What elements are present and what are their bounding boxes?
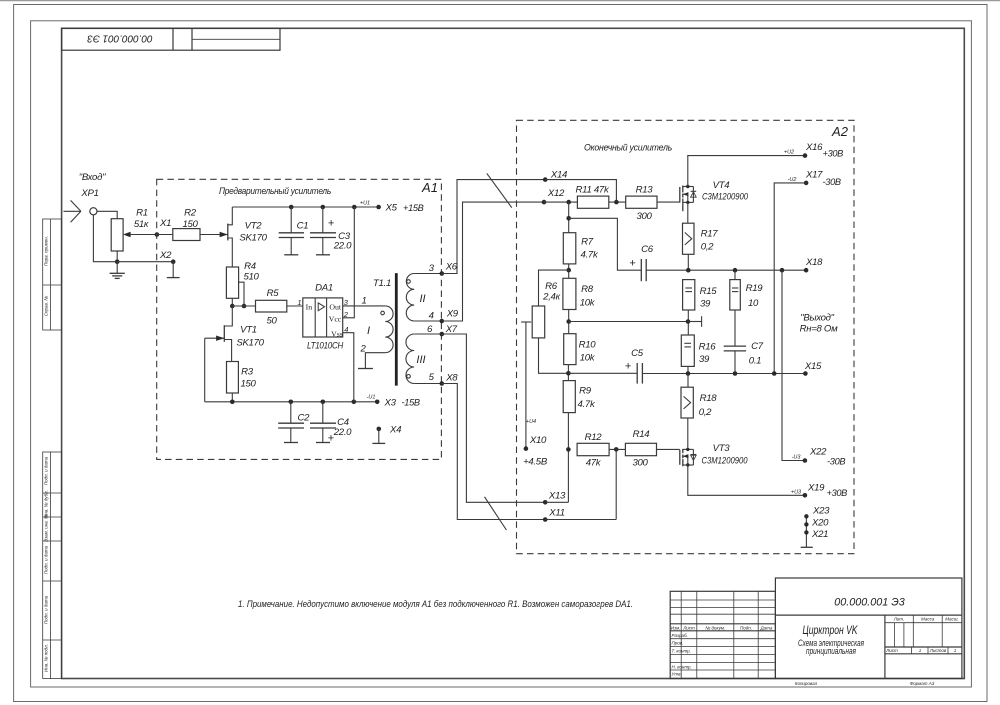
svg-text:R7: R7: [581, 237, 594, 248]
svg-text:Разраб.: Разраб.: [672, 633, 688, 638]
resistor R8: [563, 278, 596, 309]
terminal X11: [543, 517, 548, 522]
terminal X3: [375, 400, 380, 405]
terminal X14: [543, 177, 548, 182]
svg-text:R10: R10: [579, 340, 597, 351]
wire R13 to VT4 gate: [657, 201, 680, 203]
svg-text:R2: R2: [184, 208, 197, 219]
svg-text:-15В: -15В: [402, 398, 420, 408]
svg-text:Лист: Лист: [682, 625, 695, 630]
svg-text:VT1: VT1: [240, 325, 257, 336]
svg-text:Инв. № подл.: Инв. № подл.: [44, 644, 49, 672]
svg-text:R16: R16: [699, 342, 717, 353]
svg-text:+U3: +U3: [791, 490, 802, 496]
winding II: [406, 274, 442, 322]
svg-text:III: III: [416, 354, 425, 366]
svg-text:0,2: 0,2: [701, 242, 714, 253]
junction C6 tap: [566, 216, 571, 221]
svg-text:2,4к: 2,4к: [542, 292, 560, 303]
wire R2 to VT2 gate with arrow: [200, 232, 228, 237]
module A1 dashed box: [157, 179, 442, 459]
wire node to C5: [568, 372, 637, 374]
wire X11 row: [545, 519, 616, 521]
svg-text:1. Примечание. Недопустимо вкл: 1. Примечание. Недопустимо включение мод…: [238, 599, 633, 610]
svg-text:4.7k: 4.7k: [581, 250, 599, 261]
capacitor C7: [724, 341, 764, 374]
svg-text:X2: X2: [159, 250, 172, 261]
transistor VT3: [680, 443, 748, 467]
svg-text:X10: X10: [529, 435, 547, 446]
svg-text:X16: X16: [805, 142, 823, 153]
svg-text:X20: X20: [811, 518, 829, 529]
svg-text:22.0: 22.0: [333, 427, 352, 438]
terminal X4 with chassis: [372, 425, 401, 444]
resistor R5: [256, 288, 287, 327]
wire VT3 source to X19: [688, 465, 805, 495]
resistor R2: [173, 208, 200, 241]
bias rail end tick: [688, 316, 702, 327]
svg-text:R15: R15: [700, 286, 718, 297]
chassis stub under X2: [167, 262, 180, 278]
junction R4 bottom: [230, 304, 235, 309]
wire winding I bottom to common: [365, 353, 385, 369]
svg-text:R13: R13: [636, 185, 654, 196]
svg-text:XP1: XP1: [80, 188, 98, 199]
wire R15 bottom: [687, 310, 689, 335]
title block left signature table: [670, 591, 775, 678]
svg-text:II: II: [419, 293, 425, 305]
svg-text:-U1: -U1: [367, 395, 376, 401]
wire node down to VT1 drain: [224, 306, 232, 326]
svg-text:R17: R17: [701, 229, 719, 240]
svg-text:4: 4: [429, 311, 434, 322]
resistor R7: [563, 233, 599, 264]
svg-text:51к: 51к: [134, 219, 149, 230]
svg-text:X19: X19: [807, 483, 825, 494]
svg-text:Vss: Vss: [331, 330, 343, 339]
svg-text:Vcc: Vcc: [329, 315, 342, 324]
svg-text:C2: C2: [297, 413, 310, 424]
junction DA1 Vcc: [352, 205, 357, 210]
capacitor C4 (electrolytic): [310, 402, 352, 445]
svg-text:22.0: 22.0: [333, 241, 352, 252]
svg-text:-30В: -30В: [823, 177, 841, 187]
svg-text:А2: А2: [831, 124, 849, 139]
junction R8/bias rail: [566, 319, 571, 324]
svg-text:R3: R3: [241, 367, 254, 378]
wire R19 bottom to C7: [734, 310, 736, 346]
terminal X7: [440, 332, 445, 337]
svg-text:R14: R14: [633, 429, 650, 440]
wire R7 bottom: [568, 264, 570, 278]
transistor VT4: [680, 180, 748, 211]
svg-text:R11 47k: R11 47k: [576, 185, 610, 196]
svg-text:С3М1200900: С3М1200900: [702, 456, 748, 466]
lower output rail X15: [642, 373, 805, 375]
resistor R1 (potentiometer): [111, 208, 149, 252]
svg-text:X5: X5: [385, 203, 398, 214]
svg-text:Подп. и дата: Подп. и дата: [44, 595, 49, 624]
svg-text:Справ. №: Справ. №: [44, 296, 49, 317]
wire XP1 to R1 top: [98, 211, 118, 218]
terminal X9: [440, 319, 445, 324]
junction X12/R7: [566, 200, 571, 205]
capacitor C1: [279, 207, 309, 255]
svg-text:00.000.001 Э3: 00.000.001 Э3: [834, 597, 905, 609]
transistor VT1: [205, 325, 265, 362]
terminal X15: [803, 371, 808, 376]
svg-text:Утв.: Утв.: [672, 672, 682, 677]
wire XP1 sleeve down to X2 row: [93, 215, 117, 261]
junction bias rail right: [686, 319, 691, 324]
wire R6 bottom to R10 node: [539, 338, 569, 373]
svg-text:-U3: -U3: [792, 455, 802, 461]
svg-text:+U1: +U1: [360, 201, 370, 207]
terminal X6: [440, 271, 445, 276]
group slash upper: [487, 173, 512, 207]
svg-text:Лист: Лист: [885, 648, 898, 653]
resistor R4 with tap: [226, 261, 259, 298]
svg-text:C6: C6: [641, 244, 654, 255]
svg-text:Дата: Дата: [759, 625, 772, 630]
resistor R17 (0.2 / 5W mark): [683, 223, 719, 254]
junction C6/R17/R15: [686, 268, 691, 273]
terminal X13: [543, 500, 548, 505]
svg-text:X9: X9: [446, 309, 459, 320]
svg-text:X4: X4: [389, 425, 401, 436]
svg-text:X3: X3: [384, 398, 397, 409]
svg-text:150: 150: [240, 379, 256, 390]
terminal X5: [376, 205, 381, 210]
svg-text:"Вход": "Вход": [79, 172, 106, 183]
wire X7 to X13: [442, 334, 545, 502]
winding I: [385, 306, 393, 353]
winding III: [406, 334, 442, 384]
svg-text:+U2: +U2: [784, 150, 794, 156]
svg-text:принципиальная: принципиальная: [806, 646, 856, 656]
title block: [775, 578, 962, 679]
svg-text:DA1: DA1: [315, 283, 333, 294]
winding I polarity dot: [381, 311, 385, 315]
svg-text:Out: Out: [329, 303, 342, 312]
upper output rail: [646, 269, 806, 271]
resistor R14: [625, 429, 656, 469]
wire VT1 gate down to rail: [204, 338, 206, 402]
wiper arrow from X1 to R1: [123, 232, 157, 238]
svg-text:Rн=8 Ом: Rн=8 Ом: [800, 324, 838, 335]
X10 riser with tick: [521, 322, 531, 449]
svg-text:X11: X11: [548, 508, 564, 519]
svg-text:Н. контр.: Н. контр.: [672, 664, 692, 669]
svg-text:300: 300: [632, 458, 648, 469]
svg-text:1: 1: [361, 296, 366, 307]
resistor R11: [576, 185, 610, 209]
terminal X19: [803, 493, 808, 498]
page top edge shadow: [0, 0, 1000, 2]
wire X17 down to output rail: [774, 183, 806, 374]
junction R11/R13/X14: [614, 200, 619, 205]
svg-text:300: 300: [636, 211, 652, 222]
wire R16 bottom to output rail: [687, 366, 689, 373]
resistor R12: [577, 432, 609, 469]
+15V rail: [232, 206, 378, 208]
wire X9 to X12: [442, 202, 544, 321]
wire R9 bottom to R12 node: [567, 413, 569, 503]
svg-text:Масш.: Масш.: [945, 617, 959, 622]
svg-text:Масса: Масса: [921, 617, 935, 622]
svg-text:Подп. и дата: Подп. и дата: [44, 545, 49, 574]
svg-text:SK170: SK170: [236, 337, 264, 348]
terminal X10: [524, 446, 529, 451]
svg-text:C1: C1: [297, 221, 309, 232]
wire R10 bottom: [567, 365, 569, 381]
svg-text:0.1: 0.1: [749, 356, 761, 367]
wire R11 to R13: [609, 201, 626, 203]
svg-text:X8: X8: [445, 373, 458, 384]
svg-text:С3М1200900: С3М1200900: [702, 192, 748, 202]
svg-text:+: +: [328, 433, 335, 445]
svg-text:Подп. и дата: Подп. и дата: [44, 456, 49, 485]
junction X18 riser: [780, 268, 785, 273]
svg-text:R4: R4: [244, 261, 256, 272]
wire X13 row: [545, 501, 568, 503]
junction R1 bottom: [115, 259, 120, 264]
junction R12/R14/X11: [614, 447, 619, 452]
terminal X22: [803, 458, 808, 463]
svg-text:+: +: [625, 361, 632, 373]
transformer core: [395, 273, 398, 386]
resistor R13: [626, 185, 657, 223]
wire tap to C6: [569, 218, 642, 270]
svg-text:X1: X1: [159, 218, 171, 229]
junction C4 rail: [321, 400, 326, 405]
capacitor C3 (electrolytic): [310, 207, 352, 255]
svg-text:Перв. примен.: Перв. примен.: [44, 236, 49, 266]
terminal X12: [542, 200, 547, 205]
wire X2 row: [117, 261, 173, 263]
capacitor C2: [278, 402, 310, 443]
wire R14 to VT3 gate: [657, 448, 680, 450]
svg-text:Пров.: Пров.: [672, 641, 684, 646]
svg-text:+: +: [629, 258, 636, 270]
svg-text:Подп.: Подп.: [740, 625, 752, 630]
svg-text:Инв. № дубл.: Инв. № дубл.: [44, 490, 49, 518]
svg-text:X21: X21: [811, 529, 828, 540]
capacitor C6: [629, 244, 654, 281]
svg-text:0,2: 0,2: [699, 407, 712, 418]
module A2 dashed box: [517, 120, 855, 553]
wire R12 to R14: [609, 448, 625, 450]
svg-text:Листов: Листов: [929, 648, 947, 653]
junction C7 bottom: [733, 371, 738, 376]
top rotated doc-number box: [62, 28, 280, 50]
junction R9/R12/X13: [566, 447, 571, 452]
svg-text:+15В: +15В: [403, 203, 424, 213]
wire DA1 Vss to -rail: [343, 333, 354, 402]
junction R3 rail: [230, 400, 235, 405]
junction R19 top: [733, 268, 738, 273]
svg-text:VT4: VT4: [713, 180, 730, 191]
svg-text:Формат А3: Формат А3: [910, 681, 935, 686]
junction DA1 Vss rail: [352, 400, 357, 405]
resistor R16 (39 / 2W mark): [681, 335, 716, 366]
capacitor C5: [625, 348, 644, 384]
wire X6 to X14: [442, 180, 545, 274]
wire DA1 out to winding I: [343, 305, 386, 307]
wire VT4 drain to X16: [688, 156, 805, 187]
terminal X16: [803, 153, 808, 158]
svg-text:№ докум.: № докум.: [705, 625, 725, 630]
svg-text:4.7k: 4.7k: [578, 399, 596, 410]
svg-text:X7: X7: [445, 324, 458, 335]
svg-text:SK170: SK170: [239, 233, 267, 244]
terminal X18: [804, 268, 809, 273]
wire node to R6: [539, 270, 569, 306]
wire R8 bottom: [568, 310, 570, 334]
svg-text:А1: А1: [421, 180, 438, 195]
svg-text:-U2: -U2: [788, 177, 797, 183]
wire R18 to VT3: [687, 418, 689, 449]
svg-text:50: 50: [266, 316, 277, 327]
junction tap node: [242, 304, 247, 309]
svg-text:150: 150: [182, 219, 198, 230]
svg-text:I: I: [367, 325, 370, 337]
svg-text:X18: X18: [805, 257, 823, 268]
wire rail to R18: [687, 374, 689, 388]
wire R1 bottom to X2 row: [116, 251, 118, 262]
wire DA1 Vcc to +rail: [343, 207, 355, 318]
ground under R1: [110, 262, 125, 279]
svg-text:39: 39: [699, 354, 710, 365]
wire X1 to R2: [157, 234, 173, 236]
svg-text:X22: X22: [809, 447, 827, 458]
terminals X23 X20 X21 group: [801, 506, 830, 548]
wire VT4 source to R17: [687, 202, 689, 223]
svg-text:C7: C7: [751, 341, 764, 352]
svg-text:10k: 10k: [580, 298, 596, 309]
svg-text:47k: 47k: [586, 458, 602, 469]
left margin column block: upper (Перв. примен / Справ. №): [43, 219, 62, 330]
svg-text:39: 39: [700, 299, 711, 310]
svg-text:X6: X6: [445, 262, 458, 273]
wire X12 to R11: [544, 201, 577, 203]
svg-text:Лит.: Лит.: [893, 617, 905, 622]
resistor R19 (10 / 2W mark): [730, 280, 764, 310]
resistor R10: [564, 334, 597, 365]
bias rail to R15/R16 node: [569, 321, 688, 323]
left margin column block: lower (Подп. и дата / Инв №...): [43, 452, 62, 679]
junction R16/R18: [686, 371, 691, 376]
resistor R15 (39 / 2W mark): [683, 280, 718, 310]
junction C3: [321, 205, 326, 210]
svg-text:C5: C5: [631, 348, 644, 359]
-15V rail: [205, 401, 378, 403]
svg-text:+U4: +U4: [526, 419, 536, 425]
svg-text:R12: R12: [585, 432, 603, 443]
transistor VT2: [228, 207, 268, 267]
resistor R9: [563, 381, 596, 413]
svg-text:10k: 10k: [580, 353, 596, 364]
svg-text:Копировал: Копировал: [795, 681, 818, 686]
svg-text:VT3: VT3: [713, 443, 731, 454]
svg-text:Цирктрон VK: Цирктрон VK: [803, 625, 859, 637]
junction R7/R8/R6: [566, 268, 571, 273]
wire R17 bottom to rail: [687, 254, 689, 270]
wire R4 bottom: [231, 298, 233, 306]
svg-text:"Выход": "Выход": [800, 313, 834, 324]
svg-text:R19: R19: [746, 283, 764, 294]
svg-text:X23: X23: [812, 506, 830, 517]
op-amp DA1: [297, 283, 348, 352]
svg-text:-30В: -30В: [827, 457, 845, 467]
wire node down to X11 row: [615, 449, 617, 519]
resistor R3: [227, 362, 257, 394]
group slash lower: [485, 497, 507, 530]
terminal X17: [804, 181, 809, 186]
wire R3 bottom: [231, 393, 233, 402]
wire R19 top: [734, 270, 736, 279]
svg-text:R6: R6: [545, 281, 558, 292]
R4 tap link: [239, 282, 244, 306]
svg-text:00.000.001 Э3: 00.000.001 Э3: [87, 33, 153, 44]
svg-text:X15: X15: [804, 361, 822, 372]
svg-text:10: 10: [748, 298, 759, 309]
svg-text:+30В: +30В: [823, 149, 844, 159]
terminal X1: [155, 232, 160, 237]
junction C2 rail: [289, 400, 294, 405]
svg-text:X12: X12: [547, 188, 565, 199]
svg-text:R1: R1: [136, 208, 148, 219]
svg-text:+: +: [328, 218, 335, 230]
terminal X8: [440, 381, 445, 386]
svg-text:X14: X14: [550, 170, 567, 181]
svg-text:Предварительный усилитель: Предварительный усилитель: [219, 186, 331, 197]
svg-text:R5: R5: [267, 288, 280, 299]
connector XP1: [64, 200, 98, 222]
junction X17 riser bottom: [772, 371, 777, 376]
svg-text:1: 1: [297, 298, 301, 307]
chassis bar winding I: [358, 368, 373, 370]
svg-text:+30В: +30В: [827, 488, 848, 498]
svg-text:R9: R9: [579, 386, 592, 397]
wire X18 node down to X22: [782, 270, 805, 460]
junction R10/R9/C5: [566, 371, 571, 376]
svg-text:In: In: [306, 303, 313, 312]
wire node to R5: [232, 305, 255, 307]
svg-text:Оконечный усилитель: Оконечный усилитель: [584, 143, 672, 154]
svg-text:R18: R18: [700, 393, 718, 404]
svg-text:Т. контр.: Т. контр.: [672, 649, 691, 654]
svg-text:X17: X17: [805, 170, 823, 181]
wire X14 to R11/R13 node: [545, 180, 616, 203]
svg-text:+4.5В: +4.5В: [523, 457, 548, 468]
resistor R18 (0.2 / 5W mark): [681, 387, 717, 418]
resistor R6 with tap: [532, 281, 560, 338]
svg-text:Изм.: Изм.: [671, 625, 681, 630]
svg-text:510: 510: [243, 272, 259, 283]
wire X8 to X11: [442, 384, 545, 520]
svg-text:LT1010CH: LT1010CH: [307, 341, 343, 352]
svg-text:X13: X13: [548, 491, 566, 502]
terminal X2: [171, 259, 176, 264]
wire X12 node down to R7: [568, 202, 570, 233]
svg-text:R8: R8: [581, 284, 594, 295]
svg-text:Взам. инв. №: Взам. инв. №: [44, 514, 49, 542]
junction C1: [289, 205, 294, 210]
svg-text:VT2: VT2: [245, 221, 263, 232]
svg-text:T1.1: T1.1: [373, 278, 391, 289]
wire R5 to DA1: [287, 305, 303, 307]
